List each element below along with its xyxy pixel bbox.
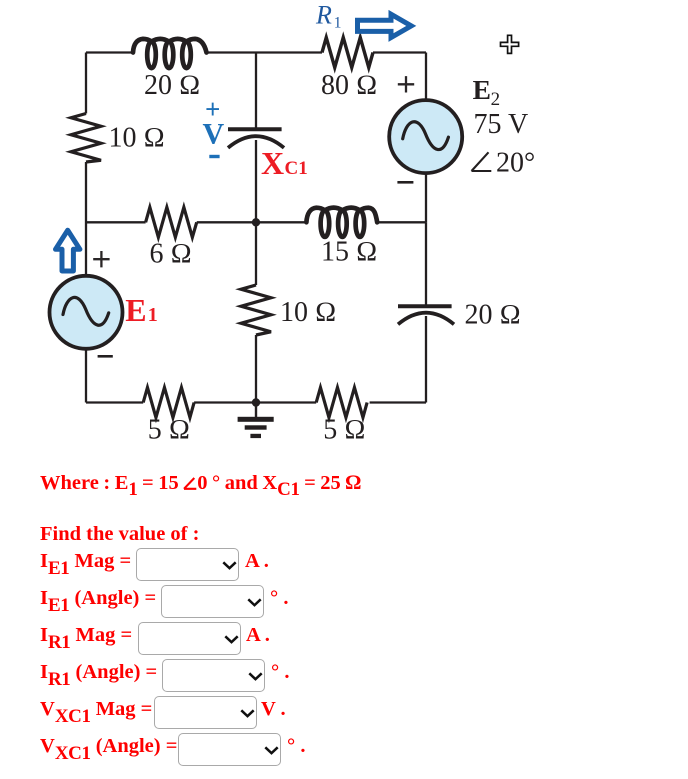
row 4 xyxy=(40,661,157,684)
circuit schematic SVG xyxy=(0,0,688,460)
row 1 xyxy=(40,550,131,573)
svg-text:10 Ω: 10 Ω xyxy=(280,297,337,328)
svg-text:R: R xyxy=(315,0,332,29)
plus sign E1 xyxy=(93,251,109,267)
svg-text:20°: 20° xyxy=(496,147,535,178)
wire right vertical mid xyxy=(425,174,427,223)
resistor 10ohm left vertical xyxy=(71,114,101,163)
wire top-middle horizontal xyxy=(207,51,323,53)
wire right vertical lower xyxy=(425,316,427,403)
svg-text:10 Ω: 10 Ω xyxy=(109,123,166,154)
inductor L 20ohm xyxy=(133,39,207,68)
junction node mid xyxy=(252,218,260,226)
find line xyxy=(40,523,199,546)
wire bottom center xyxy=(194,401,316,403)
svg-text:80 Ω: 80 Ω xyxy=(321,70,378,101)
svg-text:C1: C1 xyxy=(285,158,308,179)
svg-text:E: E xyxy=(125,292,146,328)
AC source E1 xyxy=(50,276,123,349)
capacitor XC1 xyxy=(228,129,284,148)
svg-text:5 Ω: 5 Ω xyxy=(323,415,366,446)
svg-text:6 Ω: 6 Ω xyxy=(150,239,193,270)
inductor 15ohm xyxy=(306,208,377,237)
row 6 xyxy=(40,735,177,758)
plus sign E2 xyxy=(398,76,414,92)
svg-text:5 Ω: 5 Ω xyxy=(148,415,191,446)
wire bottom left xyxy=(86,401,143,403)
wire left vertical lower xyxy=(85,349,87,403)
wire bottom right xyxy=(370,401,426,403)
wire middle vertical upper xyxy=(255,53,257,128)
wire middle vertical above resistor xyxy=(255,222,257,285)
svg-text:1: 1 xyxy=(334,15,342,32)
resistor R1 80ohm zigzag xyxy=(322,38,373,68)
minus sign E2 xyxy=(397,181,413,184)
junction node bottom xyxy=(252,398,260,406)
svg-text:15 Ω: 15 Ω xyxy=(321,237,378,268)
capacitor 20ohm right xyxy=(398,306,454,324)
wire left vertical middle xyxy=(85,162,87,276)
minus sign E1 xyxy=(98,355,113,358)
svg-text:20 Ω: 20 Ω xyxy=(465,300,522,331)
row 5 xyxy=(40,698,152,721)
wire right vertical below mid xyxy=(425,222,427,304)
wire top-right horizontal xyxy=(373,51,426,53)
wire middle vertical mid xyxy=(255,140,257,222)
svg-text:V: V xyxy=(203,118,225,151)
crosshair cursor xyxy=(500,35,518,53)
angle symbol for E2 xyxy=(472,152,492,171)
svg-text:1: 1 xyxy=(148,304,158,326)
svg-text:E: E xyxy=(473,74,491,105)
wire middle horizontal right xyxy=(377,221,426,223)
wire middle horizontal left xyxy=(86,221,146,223)
where line xyxy=(40,472,361,495)
ground xyxy=(238,403,274,439)
resistor 5ohm bottom-right xyxy=(316,388,367,418)
wire middle vertical lower xyxy=(255,335,257,403)
wire right vertical upper xyxy=(425,53,427,101)
resistor 6ohm xyxy=(146,207,197,237)
row 3 xyxy=(40,624,132,647)
row 2 xyxy=(40,587,156,610)
wire middle horizontal center xyxy=(197,221,307,223)
resistor 5ohm bottom-left xyxy=(143,388,194,418)
resistor 10ohm middle vertical xyxy=(241,285,271,335)
svg-text:75 V: 75 V xyxy=(474,109,529,140)
svg-text:20 Ω: 20 Ω xyxy=(144,70,201,101)
svg-text:X: X xyxy=(261,145,284,181)
AC source E2 xyxy=(389,100,462,173)
wire top-left horizontal xyxy=(86,51,133,53)
wire left vertical upper xyxy=(85,53,87,114)
blue right arrow near R1 xyxy=(358,14,412,37)
svg-text:2: 2 xyxy=(491,89,501,110)
select chevrons xyxy=(222,561,237,570)
blue up arrow near E1 xyxy=(56,230,80,271)
